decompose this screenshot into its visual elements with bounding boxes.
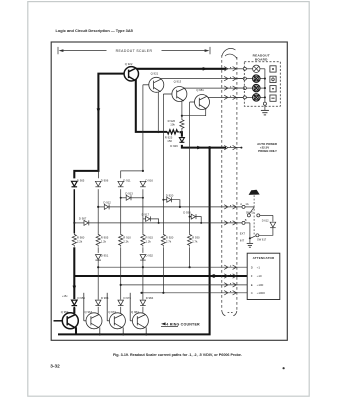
svg-text:D 917: D 917 bbox=[142, 213, 150, 217]
bus D row bbox=[98, 266, 247, 268]
svg-text:D 951: D 951 bbox=[101, 253, 109, 257]
plug-in interface dashed lines bbox=[222, 48, 237, 315]
svg-text:A: A bbox=[240, 202, 242, 206]
wire Q913 base colE down bbox=[162, 94, 164, 233]
cable arc top bbox=[222, 48, 236, 56]
wire R926 bottom bbox=[181, 128, 183, 132]
lamp B903 (lit/bold) bbox=[253, 84, 260, 91]
lamp bus junction dots bbox=[264, 78, 266, 99]
attenuator box bbox=[247, 253, 280, 299]
svg-text:PROBE ONLY: PROBE ONLY bbox=[258, 149, 277, 153]
svg-text:D 912: D 912 bbox=[103, 201, 111, 205]
wire D926 output bold bbox=[182, 145, 226, 148]
transistor Q921 bbox=[143, 77, 164, 92]
diode D905 (bold) bbox=[72, 181, 78, 187]
switch linkage flag bbox=[249, 190, 260, 195]
svg-text:Q 913: Q 913 bbox=[174, 80, 182, 84]
wire Q921 base col down bbox=[142, 85, 144, 171]
svg-text:Q 964: Q 964 bbox=[85, 310, 93, 314]
bus 207 with D912 bbox=[98, 204, 242, 209]
svg-text:3-32: 3-32 bbox=[50, 363, 60, 368]
wire Q954 collector-emitter bold bbox=[73, 308, 75, 314]
svg-text:1A: 1A bbox=[245, 202, 248, 206]
main thin wiring bbox=[161, 79, 244, 98]
diode D984 bbox=[140, 300, 146, 306]
resistor R925 bold horizontal bbox=[167, 130, 179, 134]
diode D911 bbox=[118, 181, 124, 187]
branch D920 bbox=[163, 197, 180, 207]
svg-text:SW 70: SW 70 bbox=[246, 212, 254, 215]
wire Q981 emitter elbow bbox=[182, 109, 206, 116]
svg-text:150: 150 bbox=[167, 139, 172, 143]
wire Q922 emitter bold bbox=[136, 79, 168, 132]
svg-text:D 926: D 926 bbox=[170, 144, 178, 148]
transistor Q984 bbox=[130, 293, 148, 335]
junction dots top section bbox=[97, 115, 183, 172]
diode D964 bbox=[95, 300, 101, 306]
wire Q981 base colF down bbox=[189, 102, 191, 233]
wire bold row1 Q922 collector bbox=[137, 68, 227, 70]
diode D951 bbox=[95, 255, 101, 264]
junction dot big on F bus bbox=[212, 274, 215, 277]
ground ext-int bbox=[247, 243, 253, 247]
wire row1 thin continuation bbox=[226, 68, 237, 70]
readout character windows bbox=[270, 66, 276, 102]
svg-text:B: B bbox=[245, 218, 247, 222]
wire bold bus F row bbox=[74, 275, 247, 277]
svg-text:Q 922: Q 922 bbox=[125, 62, 133, 66]
lamp B904 (lit/bold) bbox=[253, 94, 260, 101]
svg-text:2.7k: 2.7k bbox=[166, 239, 172, 243]
svg-text:4 RING COUNTER: 4 RING COUNTER bbox=[166, 322, 200, 326]
svg-text:÷1: ÷1 bbox=[257, 265, 261, 269]
svg-text:D 913: D 913 bbox=[125, 192, 133, 196]
svg-text:C: C bbox=[251, 291, 253, 295]
svg-text:Q 984: Q 984 bbox=[131, 310, 139, 314]
diode D916 bbox=[140, 181, 146, 187]
svg-text:D: D bbox=[251, 265, 253, 269]
svg-text:D 954: D 954 bbox=[78, 296, 86, 300]
bold path arrowheads bbox=[73, 67, 216, 290]
svg-text:D 952: D 952 bbox=[146, 253, 154, 257]
svg-text:1.2k: 1.2k bbox=[101, 239, 107, 243]
transistor Q954 (bold) bbox=[54, 313, 79, 329]
diode D954 (bold) bbox=[72, 300, 78, 306]
transistor Q981 bbox=[190, 95, 210, 110]
wire bracket to colC bbox=[121, 171, 143, 178]
svg-text:2.2k: 2.2k bbox=[123, 239, 129, 243]
svg-text:2.2k: 2.2k bbox=[77, 239, 83, 243]
svg-text:Fig. 3-19. Readout Scaler curr: Fig. 3-19. Readout Scaler current paths … bbox=[113, 353, 242, 357]
svg-text:D 916: D 916 bbox=[146, 179, 154, 183]
wire R925 to D926 junction bold bbox=[180, 132, 182, 137]
svg-text:D 907: D 907 bbox=[79, 217, 87, 221]
svg-text:÷10: ÷10 bbox=[257, 274, 262, 278]
wire row4 collector Q981 to lamp4 bbox=[208, 96, 243, 98]
svg-text:F: F bbox=[251, 274, 253, 278]
emitter bus junction dots bbox=[99, 333, 148, 335]
transistor Q922 bbox=[124, 67, 138, 81]
wire colA lower bold bbox=[73, 247, 75, 299]
svg-text:÷1000: ÷1000 bbox=[257, 291, 265, 295]
transistor Q964 bbox=[84, 293, 102, 335]
READOUT SCALER dimension line bbox=[58, 47, 210, 54]
ground readout board bbox=[261, 110, 269, 115]
diode D926 bold bbox=[179, 138, 184, 143]
bold highlighted current path bbox=[58, 69, 247, 335]
ring counter label bbox=[161, 322, 166, 325]
svg-text:EXT: EXT bbox=[240, 232, 246, 236]
svg-text:D 906: D 906 bbox=[101, 179, 109, 183]
bus E row bbox=[121, 284, 247, 286]
wire bottom emitter bus bold bbox=[58, 148, 210, 335]
svg-text:Q 974: Q 974 bbox=[108, 310, 116, 314]
cable hooks bottom bbox=[222, 311, 226, 316]
resistors R900 R905 R910 R915 R920 R930 bbox=[72, 233, 192, 246]
diode matrix columns bbox=[74, 171, 189, 314]
emitter / base vertical feeds of top transistors bbox=[121, 85, 206, 234]
bus C row bbox=[142, 292, 248, 294]
lamp B901 bbox=[253, 65, 260, 72]
svg-text:D 984: D 984 bbox=[146, 296, 154, 300]
svg-text:Q 921: Q 921 bbox=[151, 72, 159, 76]
svg-text:SW 617: SW 617 bbox=[257, 238, 267, 242]
wire cols below lower diodes to ring transistors bbox=[97, 307, 99, 314]
auto power wire thin continuation bbox=[228, 147, 241, 149]
svg-text:E: E bbox=[251, 283, 253, 287]
wire emitter Q954 to bottom bus bbox=[75, 327, 77, 334]
svg-text:ATTENUATOR: ATTENUATOR bbox=[253, 256, 275, 260]
wire row2 collector Q921 to lamp2 bbox=[161, 78, 244, 80]
branch D930 bbox=[190, 214, 202, 223]
transistor Q974 bbox=[107, 293, 125, 335]
transistor Q913 bbox=[163, 87, 187, 102]
tiny pin dots bbox=[230, 67, 231, 292]
node 1A row bbox=[242, 205, 273, 221]
wire colB thin below elbow bbox=[97, 171, 99, 178]
wire row3 collector Q913 to lamp3 bbox=[184, 87, 243, 89]
wire Q921 emitter down bbox=[157, 92, 159, 132]
lamp B902 (lit/bold) bbox=[253, 75, 260, 82]
svg-text:Q 954: Q 954 bbox=[61, 310, 69, 314]
svg-text:D 930: D 930 bbox=[183, 210, 191, 214]
svg-text:INT: INT bbox=[240, 238, 245, 242]
lamp wiring bbox=[236, 67, 266, 110]
svg-text:D 905: D 905 bbox=[77, 179, 85, 183]
svg-text:D 920: D 920 bbox=[166, 193, 174, 197]
registered mark bbox=[283, 367, 285, 369]
svg-text:Logic and Circuit Description: Logic and Circuit Description — Type 3A5 bbox=[56, 28, 134, 33]
svg-text:Q 981: Q 981 bbox=[196, 88, 204, 92]
node B row / EXT INT switch bbox=[242, 221, 259, 243]
wire Q922 base bold bbox=[74, 74, 124, 179]
svg-text:1.2k: 1.2k bbox=[146, 239, 152, 243]
resistor R926 bbox=[180, 116, 184, 129]
connector chevrons at interface bbox=[224, 67, 236, 295]
line D913 colC-colD bbox=[121, 195, 143, 200]
wire Q913 emitter down to R926 bbox=[181, 101, 183, 116]
svg-text:D 612: D 612 bbox=[262, 218, 269, 222]
diode D974 bbox=[118, 300, 124, 306]
bus 223 with D907 bbox=[74, 220, 242, 225]
wire cols through resistor zone down bbox=[97, 247, 99, 253]
svg-text:D 911: D 911 bbox=[123, 179, 131, 183]
diode D906 bbox=[95, 181, 101, 187]
svg-text:10k: 10k bbox=[170, 123, 175, 127]
diode D952 bbox=[140, 255, 146, 264]
diode D612 bbox=[259, 222, 276, 235]
svg-text:+15v: +15v bbox=[62, 295, 68, 298]
schematic frame bbox=[51, 42, 287, 340]
svg-text:BOARD: BOARD bbox=[255, 57, 268, 61]
svg-text:READOUT SCALER: READOUT SCALER bbox=[116, 49, 153, 53]
matrix junction dots bbox=[73, 197, 202, 294]
svg-text:2.7k: 2.7k bbox=[192, 239, 198, 243]
branch D917 bbox=[143, 216, 159, 223]
svg-text:D 964: D 964 bbox=[101, 296, 109, 300]
svg-text:÷100: ÷100 bbox=[257, 283, 264, 287]
